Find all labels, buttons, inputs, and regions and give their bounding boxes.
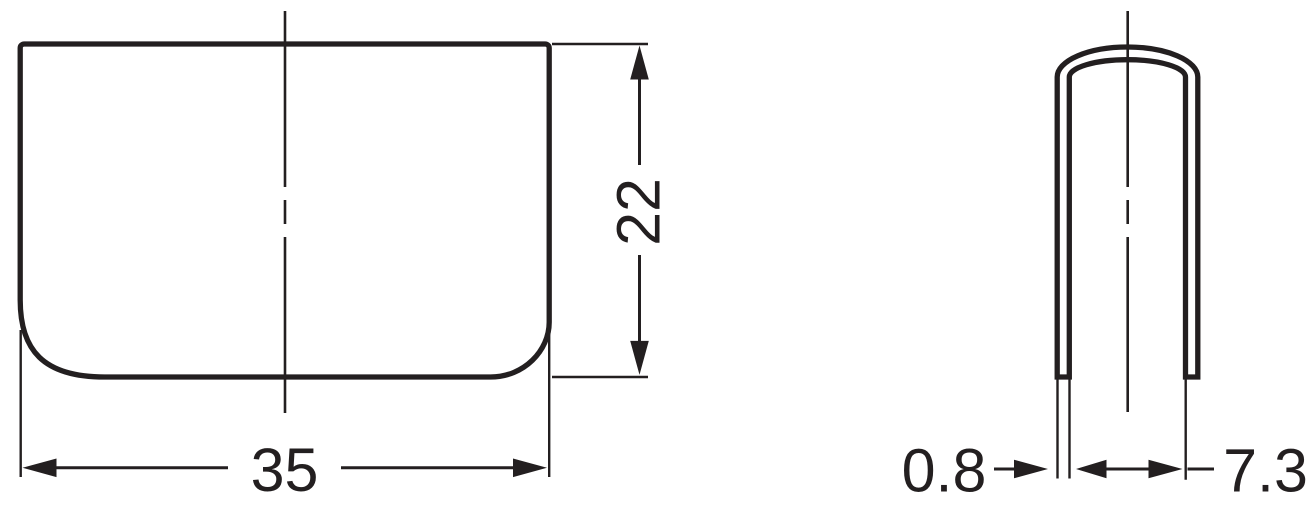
arrowhead 22 up (630, 46, 649, 80)
arrowhead 22 down (630, 341, 649, 375)
side view centerline (1126, 11, 1129, 412)
front view centerline (284, 11, 287, 414)
extension line bottom of dim 22 (552, 376, 648, 378)
dimension line 35 right segment (341, 466, 514, 469)
side view channel outline (1057, 47, 1198, 377)
arrowhead 0.8 pointing right (1014, 460, 1048, 479)
dimension line 35 left segment (55, 466, 228, 469)
extension line left of dim 35 (20, 330, 22, 477)
svg-text:22: 22 (605, 178, 673, 246)
extension line inner-right wall surface (1184, 379, 1186, 480)
dimension line 7.3 middle segment (1106, 468, 1149, 471)
arrowhead 7.3 pointing left (1076, 460, 1107, 479)
extension line outer-left wall surface (1056, 379, 1058, 479)
arrowhead 35 right (513, 459, 547, 478)
extension line inner-left wall surface (1068, 379, 1070, 479)
arrowhead 35 left (23, 459, 57, 478)
front view outline (20, 44, 549, 377)
svg-text:0.8: 0.8 (902, 437, 987, 505)
extension line top of dim 22 (552, 43, 648, 45)
svg-text:35: 35 (251, 436, 319, 504)
extension line right of dim 35 (548, 330, 550, 477)
dimension line 7.3 stub to text (1188, 468, 1215, 471)
arrowhead 7.3 pointing right (1149, 460, 1183, 479)
dimension line 22 lower segment (638, 255, 641, 342)
dimension line 22 upper segment (638, 78, 641, 165)
svg-text:7.3: 7.3 (1223, 437, 1308, 505)
leader line for 0.8 (994, 468, 1016, 471)
